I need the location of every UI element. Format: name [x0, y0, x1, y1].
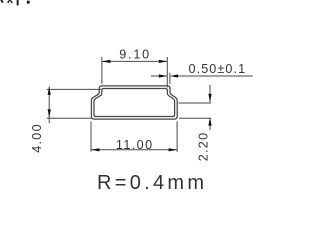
- dimension 9.10: dimension line: [102, 60, 167, 62]
- dimension 2.20: upper shaft: [209, 85, 211, 102]
- dimension 0.50±0.1: right arrowhead pointing left: [170, 74, 178, 77]
- svg-text:2.20: 2.20: [196, 132, 210, 162]
- dimension 4.00: dimension line: [48, 86, 50, 123]
- svg-text:9.10: 9.10: [119, 47, 151, 61]
- svg-text:4.00: 4.00: [30, 123, 44, 153]
- profile inner contour: [94, 89, 175, 117]
- dimension 2.20: upper extension line: [179, 102, 212, 104]
- svg-text:11.00: 11.00: [116, 138, 154, 152]
- dimension 11.00: right extension line: [176, 121, 178, 152]
- dimension 0.50±0.1: underline leader: [178, 75, 253, 77]
- dimension 4.00: bottom arrowhead pointing down: [48, 109, 51, 118]
- dimension 11.00: left extension line: [90, 121, 92, 152]
- dimension 4.00: bottom extension line: [47, 117, 91, 119]
- cropped text fragment mark 2: [7, 0, 10, 3]
- cropped text fragment mark 4 (vertical bar): [17, 0, 19, 5]
- cropped text fragment mark 5 (dot): [27, 1, 30, 4]
- cropped text fragment mark 1 (top-left): [0, 0, 3, 3]
- dimension 2.20: lower arrowhead pointing up: [208, 117, 211, 126]
- dimension 9.10: left extension line: [101, 57, 103, 84]
- svg-text:0.50±0.1: 0.50±0.1: [189, 62, 247, 76]
- profile outer contour: [91, 86, 177, 119]
- dimension 2.20: lower extension line: [179, 117, 211, 119]
- svg-text:R=0.4mm: R=0.4mm: [97, 172, 207, 194]
- dimension 11.00: left arrowhead: [91, 148, 100, 151]
- dimension 2.20: upper arrowhead pointing down: [208, 94, 211, 103]
- dimension 0.50±0.1: left arrowhead pointing right: [159, 74, 167, 77]
- dimension 2.20: lower shaft: [209, 126, 211, 130]
- dimension 4.00: top arrowhead pointing up: [48, 86, 51, 95]
- dimension 9.10: right extension line: [166, 57, 168, 88]
- dimension 9.10: right arrowhead: [159, 60, 168, 63]
- dimension 0.50±0.1: extension line at outer edge: [169, 73, 171, 84]
- dimension 9.10: left arrowhead: [102, 60, 111, 63]
- cropped text fragment mark 3: [10, 0, 13, 3]
- dimension 4.00: top extension line: [47, 88, 101, 90]
- dimension 11.00: dimension line: [91, 149, 177, 151]
- dimension 0.50±0.1: left leader line: [151, 75, 167, 77]
- dimension 11.00: right arrowhead: [169, 148, 178, 151]
